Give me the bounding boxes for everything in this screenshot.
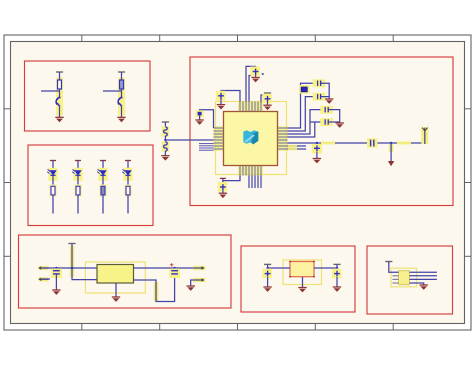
ground (C3)	[217, 105, 225, 110]
wire pin1 top to C3	[221, 91, 240, 102]
junction L column / pin wire	[164, 139, 166, 141]
junction shunt-gnd/feed	[390, 142, 392, 144]
net flag input B	[38, 277, 48, 281]
highlight halo Q1/R1	[56, 78, 63, 116]
wire L2 to ground	[164, 151, 166, 156]
power flag (J1 pin1)	[385, 261, 392, 263]
section box 6 (connector, bottom-right)	[367, 246, 453, 314]
wire R4 down	[77, 195, 79, 214]
wire Q1 to ground	[59, 105, 61, 117]
transistor Q1	[56, 97, 60, 106]
ground (xtal caps)	[325, 99, 333, 104]
capacitor C14 halo	[332, 269, 341, 279]
antenna stub wire	[424, 131, 426, 144]
junction left cap	[266, 267, 268, 269]
junction right cap	[336, 267, 338, 269]
capacitor C3 (decoupling)	[218, 93, 224, 99]
wire C4 to ground	[222, 190, 224, 194]
MCU top pins	[240, 102, 261, 112]
frame zone ticks bottom	[82, 324, 393, 331]
frame zone ticks right	[465, 109, 472, 256]
capacitor C7 halo	[313, 79, 326, 87]
polarity mark + for C6	[170, 263, 173, 266]
wire right pin3 to cap rail	[288, 110, 324, 134]
wire C11 to ground	[316, 152, 318, 159]
wire C3 to ground	[220, 99, 222, 105]
ferrite bead FB1	[198, 112, 202, 116]
capacitor C8 (xtal)	[318, 94, 321, 99]
series cap C12 halo	[367, 138, 377, 147]
wire highlight on VOUT drop	[154, 282, 159, 301]
wire flag to LED3	[102, 161, 104, 171]
stub highlight right pins	[288, 145, 297, 150]
LED D4	[122, 169, 130, 175]
wire R5 down	[102, 195, 104, 214]
highlight halo Q2/R2	[118, 78, 125, 116]
capacitor C1 halo	[251, 67, 260, 77]
LED column 2 : power flag	[75, 160, 81, 162]
antenna ANT1	[422, 128, 427, 132]
wire flag to LED4	[127, 161, 129, 171]
inductor L2	[164, 142, 168, 151]
capacitor C6 (output bulk)	[171, 271, 178, 274]
wire R2 to Q2	[121, 89, 123, 98]
ground stub wire (flag net)	[191, 280, 199, 286]
wire base input 2	[103, 90, 122, 92]
wire rail branch to C10	[310, 121, 324, 123]
capacitor C6 halo	[169, 269, 180, 279]
wire L1 to L2	[164, 136, 166, 142]
ground (U3)	[298, 288, 306, 293]
wire right pin1 to crystal rail A	[288, 83, 317, 128]
ground (feed shunt, arrow style)	[388, 161, 394, 166]
wire bottom pin1 to C4	[223, 176, 240, 184]
net flag output	[193, 266, 205, 270]
section box 5 (aux IC, bottom-center)	[241, 246, 355, 312]
MCU U1 halo ring	[216, 102, 287, 175]
wire highlight segment 1	[321, 142, 335, 145]
inductor L2 halo	[162, 141, 170, 151]
power bar (C4 net)	[220, 177, 226, 179]
wire U2 VOUT loop	[134, 275, 175, 302]
power flag on riser	[68, 243, 75, 245]
ground (C13)	[263, 287, 271, 292]
junction C5/rail	[55, 267, 57, 269]
stub wires bottom pins 4-8	[249, 176, 261, 189]
capacitor C9	[325, 107, 328, 112]
capacitor C11 halo	[312, 144, 322, 154]
capacitor C2 (decoupling)	[265, 96, 271, 102]
LED D1 halo	[48, 168, 57, 181]
resistor R5	[101, 186, 105, 195]
MCU U1 pin bundle highlights	[214, 102, 288, 176]
frame zone ticks top	[82, 35, 393, 42]
regulator U2 body	[97, 265, 134, 284]
ground (C2)	[263, 105, 271, 110]
resistor R3	[51, 186, 55, 195]
section box 3 (power regulator, bottom-left)	[19, 235, 232, 308]
stub wire right pin7	[288, 145, 307, 147]
ground (L column)	[161, 156, 169, 161]
wire flag to pin1	[389, 262, 399, 273]
power flag bar (L1 column)	[162, 121, 169, 123]
wire highlight shunt stub	[389, 144, 393, 152]
wire flag to L1	[164, 122, 166, 127]
MCU U1 body	[224, 112, 278, 166]
wire C7/C8 to ground rail	[321, 83, 329, 99]
ground (circuit 2)	[117, 117, 125, 122]
junction riser/rail	[71, 267, 73, 269]
MCU right pins	[278, 128, 288, 149]
wire U3 left pin	[268, 267, 290, 269]
wire right pin2 to crystal rail B	[288, 97, 317, 131]
capacitor C1 (VDD decoupling)	[253, 69, 259, 75]
wire R3 down	[52, 195, 54, 214]
sheet background	[11, 42, 465, 324]
ground (C9/C10)	[336, 123, 344, 128]
resistor R1	[58, 80, 62, 89]
capacitor C10 halo	[320, 118, 333, 126]
wire LED1 to R3	[52, 176, 54, 186]
wire shunt stub	[390, 143, 392, 162]
LED D2 halo	[73, 168, 82, 181]
MCU left pins	[214, 128, 224, 149]
net flag input A	[38, 266, 48, 270]
ground (C1)	[251, 78, 259, 83]
LED D2	[72, 169, 80, 175]
junction dot stray	[262, 73, 264, 75]
wire U2 GND pin	[115, 283, 117, 297]
capacitor C7 (xtal)	[318, 81, 321, 86]
stub wires left pins 6-8	[199, 144, 214, 151]
inductor L1	[164, 127, 168, 136]
ground (output side)	[187, 286, 195, 291]
section box 4 (MCU + RF, right)	[190, 57, 453, 206]
capacitor C2 halo	[262, 94, 271, 104]
stub bar to wire right	[336, 264, 338, 268]
riser wire to EN pin	[72, 244, 97, 280]
connector J1 halo ring	[391, 268, 417, 287]
LED D3 halo	[98, 168, 107, 181]
wire C13 to ground	[267, 277, 269, 287]
wire C5 to ground	[55, 274, 57, 290]
sheet frame inner border	[11, 42, 465, 324]
J1 right pin wires	[410, 272, 437, 285]
wire R1 to Q1	[59, 89, 61, 98]
resistor R5 halo	[99, 185, 106, 197]
resistor R2	[120, 80, 124, 89]
wire U3 right pin	[314, 267, 337, 269]
ferrite bead FB1 halo	[195, 110, 203, 117]
LED D1	[47, 169, 55, 175]
wire C2 to ground	[267, 102, 269, 106]
capacitor C11 (shunt)	[314, 145, 320, 151]
ground (J1)	[420, 285, 428, 290]
capacitor C8 halo	[313, 93, 326, 101]
wire flag to LED1	[52, 161, 54, 171]
MCU bottom pins	[240, 166, 261, 176]
capacitor C10	[325, 119, 328, 124]
J1 left pins	[393, 276, 399, 283]
wire highlight segment 2	[397, 142, 411, 145]
section box 2 (LED array, mid-left)	[28, 145, 153, 226]
capacitor C13 halo	[263, 269, 272, 279]
capacitor C4 halo	[218, 182, 227, 192]
resistor R6 halo	[124, 185, 131, 197]
wire VDD pin3 up to C1	[246, 66, 256, 101]
wire left pin1 to FB1	[200, 110, 214, 128]
capacitor C13	[265, 271, 271, 277]
ground (C14)	[333, 287, 341, 292]
capacitor C5 (input bulk)	[53, 271, 60, 274]
stub bar to wire	[267, 264, 269, 268]
ground (input cap)	[52, 290, 60, 295]
wire VCC to R1	[59, 72, 61, 80]
wire C1 to ground	[255, 74, 257, 77]
IC U3 halo ring	[283, 260, 322, 285]
resistor R4	[76, 186, 80, 195]
wire VCC to R2	[121, 72, 123, 80]
LED D3	[97, 169, 105, 175]
series cap C12	[371, 140, 374, 147]
capacitor C9 halo	[320, 106, 333, 114]
section box 1 (transistor drivers, top-left)	[25, 61, 151, 131]
wire LED2 to R4	[77, 176, 79, 186]
stub wire flag B	[42, 278, 50, 280]
LED D4 halo	[123, 168, 132, 181]
stub C4 bar to wire	[222, 178, 224, 183]
crystal Y1 halo	[299, 85, 310, 94]
ground (C11)	[313, 159, 321, 164]
wire C9/C10 to ground	[328, 110, 339, 123]
power bar (left cap net)	[264, 263, 271, 265]
antenna feed wire	[288, 131, 425, 143]
power flag bar (C2 net)	[264, 92, 271, 94]
wire highlight on VIN riser	[70, 246, 74, 277]
MCU logo	[243, 130, 258, 144]
LED column 1 : power flag	[50, 160, 56, 162]
wire Q2 to ground	[121, 105, 123, 117]
wire FB1 to ground	[199, 115, 201, 120]
wire flag to LED2	[77, 161, 79, 171]
LED column 3 : power flag	[100, 160, 106, 162]
resistor R6	[126, 186, 130, 195]
junction C6/rail	[173, 267, 175, 269]
IC U3 body	[290, 262, 314, 277]
resistor R3 halo	[49, 185, 56, 197]
wire base input 1	[41, 90, 60, 92]
wire right pin4 corner	[288, 122, 315, 137]
capacitor C5 halo	[51, 269, 62, 279]
LED column 4 : power flag	[125, 160, 131, 162]
ground (regulator tab)	[112, 297, 120, 302]
stub wire right pin8	[288, 148, 307, 150]
antenna halo	[421, 127, 428, 144]
net flag ground side	[193, 278, 205, 282]
wire U3 GND pin	[302, 277, 304, 288]
U3 corner pin dots	[289, 261, 315, 278]
wire LED4 to R6	[127, 176, 129, 186]
sheet frame outer border	[4, 35, 471, 330]
power bar (right cap net)	[333, 263, 340, 265]
inductor L1 halo	[162, 126, 170, 136]
power flag bar (circuit 2)	[118, 71, 125, 73]
crystal Y1	[301, 87, 307, 92]
wire pin4 to C1 ground bar	[249, 76, 253, 102]
transistor Q2	[118, 97, 122, 106]
ground (circuit 1)	[55, 117, 63, 122]
frame zone ticks left	[4, 109, 11, 256]
wire pin8 to C2	[261, 95, 264, 102]
main input rail wire	[42, 267, 196, 269]
power flag bar (circuit 1)	[56, 71, 63, 73]
connector J1 body	[399, 271, 410, 285]
ground (C4)	[219, 193, 227, 198]
wire R6 down	[127, 195, 129, 214]
capacitor C14	[334, 271, 340, 277]
capacitor C3 halo	[216, 91, 225, 101]
junction C11/feed	[316, 142, 318, 144]
regulator U2 halo ring	[85, 262, 145, 293]
resistor R4 halo	[74, 185, 81, 197]
wire left pin5 long to L1 column	[165, 139, 213, 141]
ground (FB1)	[195, 120, 203, 125]
wire C14 to ground	[336, 277, 338, 287]
wire LED3 to R5	[102, 176, 104, 186]
capacitor C4	[220, 184, 226, 190]
